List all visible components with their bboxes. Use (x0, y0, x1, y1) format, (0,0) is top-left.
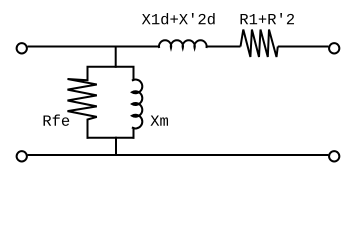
value label X1d+X'2d (142, 13, 215, 24)
wire top-right segment (278, 46, 329, 48)
wire stem bottom (115, 137, 117, 155)
resistor R1+R'2 (241, 30, 278, 58)
inductor X1d+X'2d (159, 40, 207, 48)
terminal top-left (17, 43, 27, 53)
value label R1+R'2 (241, 13, 294, 24)
bottom wire (28, 154, 329, 156)
bottom bar of parallel branch (87, 137, 135, 139)
inductor Xm (vertical) (132, 67, 142, 139)
terminal top-right (329, 43, 339, 53)
resistor Rfe (vertical) (68, 67, 97, 139)
value label Xm (150, 115, 168, 125)
terminal bottom-left (17, 151, 27, 161)
wire stem top (junction to parallel branch) (115, 46, 117, 68)
wire top-left segment (28, 46, 160, 48)
terminal bottom-right (329, 151, 339, 161)
wire between inductor and resistor (206, 46, 240, 48)
top bar of parallel branch (87, 66, 135, 68)
value label Rfe (44, 114, 70, 125)
